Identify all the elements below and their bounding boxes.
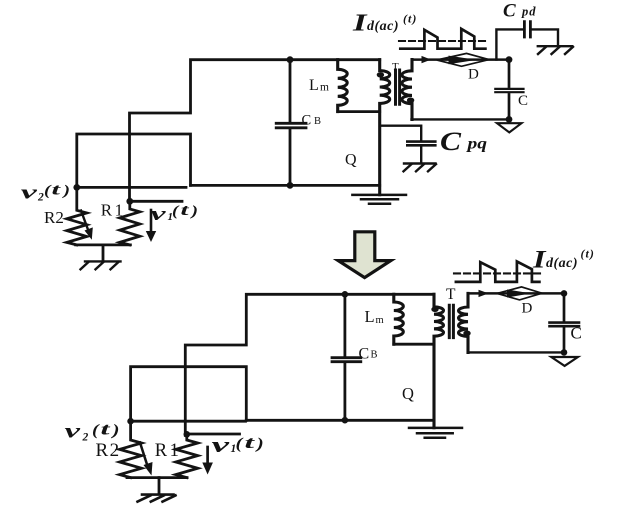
node v2 junction dot — [73, 184, 80, 191]
svg-text:v: v — [21, 182, 38, 203]
svg-text:): ) — [110, 422, 120, 439]
wire secondary loop top — [468, 292, 564, 295]
svg-text:C: C — [503, 1, 516, 22]
capacitor CB branch wire lower — [343, 363, 346, 420]
label Id(ac)(t) bottom — [532, 247, 595, 274]
wire staircase: R1 node up to top rail — [130, 60, 380, 201]
junction dot CB top — [287, 56, 294, 63]
svg-text:T: T — [392, 61, 399, 73]
ground triangle under loop — [551, 357, 578, 366]
wire secondary loop top — [412, 58, 509, 61]
svg-text:L: L — [309, 77, 319, 94]
resistor R1 — [120, 201, 140, 245]
svg-text:v: v — [151, 204, 167, 225]
junction dot CB bottom — [342, 417, 349, 424]
label v2(t) — [21, 182, 70, 204]
ground (3-bar) main top circuit — [352, 195, 406, 204]
ground (slash) under R1/R2 — [138, 495, 176, 502]
svg-text:v: v — [212, 432, 230, 457]
capacitor CB plates — [332, 358, 361, 362]
diode D inner arrow — [507, 290, 531, 298]
current waveform Id(ac) top — [400, 29, 485, 49]
transformer T1 secondary winding — [402, 60, 412, 120]
wire Lm bottom to primary — [394, 343, 434, 346]
svg-text:(: ( — [172, 204, 180, 220]
junction dot loop bottom — [506, 116, 513, 123]
svg-text:2: 2 — [37, 192, 44, 204]
capacitor C plates — [495, 89, 523, 92]
svg-text:(t): (t) — [581, 247, 595, 261]
arrow v1 — [150, 210, 153, 232]
diode D inner arrow — [449, 56, 477, 65]
svg-text:I: I — [532, 247, 547, 274]
current waveform Id(ac) bottom — [456, 262, 540, 282]
svg-text:m: m — [320, 82, 329, 94]
label Lm — [365, 307, 384, 326]
primary phase dot — [377, 72, 384, 77]
label v1(t) — [212, 432, 264, 457]
big down arrow — [338, 232, 391, 278]
svg-text:Q: Q — [402, 384, 414, 403]
wire Cpd to ground — [532, 29, 558, 45]
svg-text:C: C — [359, 345, 370, 362]
svg-text:T: T — [446, 286, 456, 303]
svg-text:t: t — [181, 202, 190, 219]
wire R2-R1 bottom — [76, 243, 131, 246]
wire secondary loop bottom — [412, 118, 510, 120]
wire R2-R1 bottom — [127, 476, 187, 479]
node v1 junction dot — [184, 431, 191, 438]
secondary phase dot — [407, 98, 414, 103]
ground (slash) for Cpq — [404, 164, 437, 172]
capacitor Cpq tap wire — [380, 126, 422, 141]
svg-text:R2: R2 — [44, 208, 64, 227]
resistor R2 — [67, 187, 87, 244]
junction dot CB bottom — [287, 182, 294, 189]
capacitor CB branch wire upper — [289, 60, 292, 122]
svg-text:): ) — [189, 204, 198, 220]
wire ground stub — [102, 245, 105, 261]
wire bottom rail — [246, 419, 434, 422]
capacitor Cpd plates — [524, 22, 530, 37]
primary phase dot — [431, 307, 438, 312]
svg-text:D: D — [522, 301, 533, 317]
capacitor Cpq plates — [407, 142, 435, 146]
ground (slash) for Cpd — [538, 46, 573, 54]
svg-text:pd: pd — [521, 5, 537, 19]
waveform average dashed line — [454, 272, 544, 274]
ground triangle under loop — [497, 123, 522, 132]
svg-text:B: B — [371, 349, 378, 360]
diode D (diamond source) outline — [437, 53, 489, 66]
wire loop right lower — [508, 94, 511, 119]
wire staircase: v2 node up and over to bottom rail — [131, 367, 247, 422]
svg-text:t: t — [245, 433, 257, 452]
arrow v1 — [206, 447, 209, 464]
wire staircase: R1 node up to top rail — [185, 294, 434, 435]
resistor R1 — [176, 434, 198, 477]
wire Lm bottom to primary — [338, 110, 380, 113]
svg-text:(: ( — [236, 436, 245, 453]
wire node v2 line — [77, 186, 186, 189]
wire secondary loop bottom — [468, 351, 564, 353]
svg-text:C: C — [302, 112, 312, 128]
junction dot loop top — [506, 56, 513, 63]
resistor R2 — [120, 421, 142, 477]
svg-text:pq: pq — [465, 136, 487, 153]
junction dot CB top — [342, 291, 349, 298]
svg-text:D: D — [468, 67, 479, 83]
svg-text:): ) — [61, 183, 70, 199]
label CB — [359, 345, 378, 362]
svg-text:C: C — [518, 93, 528, 109]
svg-text:t: t — [52, 182, 62, 199]
wire node v1 line — [130, 200, 182, 203]
transformer T2 primary winding — [434, 294, 443, 427]
capacitor CB plates — [276, 123, 306, 128]
svg-text:2: 2 — [82, 432, 89, 444]
svg-text:B: B — [314, 116, 321, 127]
svg-text:m: m — [376, 315, 384, 326]
transformer T1 core — [396, 70, 400, 104]
label Cpq — [440, 126, 487, 156]
node v2 junction dot — [127, 418, 134, 425]
secondary phase dot — [463, 331, 470, 336]
wire bottom rail — [191, 184, 380, 187]
svg-text:v: v — [65, 421, 82, 443]
svg-text:C: C — [571, 324, 582, 343]
transformer T2 core — [449, 305, 453, 337]
transformer T1 primary winding — [380, 60, 390, 195]
ground (slash) under R1/R2 — [81, 261, 121, 269]
capacitor Cpd tap wire — [496, 29, 522, 59]
svg-text:(t): (t) — [403, 12, 417, 26]
ground (3-bar) main bottom circuit — [409, 428, 462, 438]
junction dot loop bottom — [561, 349, 568, 356]
capacitor CB branch wire lower — [289, 129, 292, 185]
wire loop right upper — [563, 293, 566, 320]
arrowhead on loop top wire — [479, 290, 489, 297]
label CB — [302, 112, 322, 128]
wire loop right lower — [563, 327, 566, 352]
transformer T2 secondary winding — [459, 293, 468, 352]
arrow across R2 — [81, 211, 89, 232]
junction dot loop top — [561, 290, 568, 297]
wire staircase: v2 node up and over to bottom rail — [77, 134, 191, 187]
arrowhead on loop top wire — [422, 56, 432, 63]
svg-text:d(ac): d(ac) — [546, 256, 578, 271]
wire ground stub — [158, 478, 161, 494]
svg-text:R2: R2 — [96, 440, 121, 461]
label v1(t) — [151, 202, 199, 225]
arrow across R2 — [140, 443, 148, 467]
svg-text:d(ac): d(ac) — [367, 19, 399, 34]
inductor Lm — [338, 60, 348, 112]
waveform average dashed line — [399, 40, 488, 42]
label Lm — [309, 77, 329, 94]
wire loop right upper — [508, 60, 511, 87]
label Cpd — [503, 1, 537, 22]
svg-text:Q: Q — [345, 152, 357, 169]
diode D (diamond source) outline — [497, 287, 542, 300]
node v1 junction dot — [126, 198, 133, 205]
capacitor C plates — [550, 323, 580, 327]
svg-text:L: L — [365, 307, 375, 326]
wire node v1 line — [187, 433, 240, 436]
wire Cpq to ground — [420, 145, 422, 163]
label v2(t) — [65, 420, 120, 444]
wire node v2 line — [131, 420, 246, 423]
capacitor CB branch wire upper — [343, 294, 346, 356]
inductor Lm — [394, 294, 404, 344]
label Id(ac)(t) top — [352, 11, 418, 37]
svg-text:t: t — [101, 420, 111, 439]
svg-text:): ) — [254, 436, 264, 453]
svg-text:C: C — [440, 126, 461, 156]
